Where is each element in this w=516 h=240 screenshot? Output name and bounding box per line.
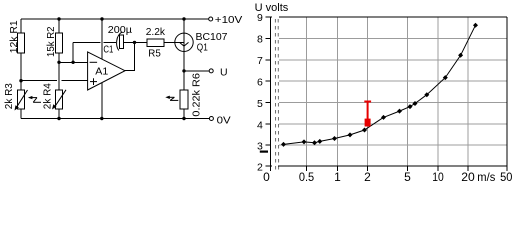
- chart horizontal gridlines: [279, 38, 507, 145]
- resistor R2: [55, 33, 62, 53]
- node rail-R4 junction: [57, 117, 60, 120]
- svg-text:C1: C1: [103, 43, 113, 55]
- svg-text:R5: R5: [148, 48, 161, 60]
- wire node U to R6: [183, 71, 185, 90]
- chart data point markers: [281, 23, 478, 147]
- node feedback tap: [71, 61, 74, 64]
- wire R6 to bottom rail: [183, 109, 185, 118]
- svg-text:6: 6: [257, 77, 263, 89]
- node rail-R2 junction: [57, 17, 60, 20]
- resistor R1: [18, 33, 25, 53]
- wire R3 to bottom rail: [20, 109, 22, 119]
- node rail-Q1 collector junction: [182, 17, 185, 20]
- resistor R5 2.2k: [135, 41, 147, 43]
- R4 adjust diagonal arrow: [54, 90, 66, 108]
- node rail-R6 junction: [182, 117, 185, 120]
- svg-text:4: 4: [257, 119, 263, 131]
- svg-text:Q1: Q1: [197, 42, 208, 54]
- svg-text:5: 5: [404, 170, 411, 184]
- op-amp A1: [88, 52, 125, 90]
- chart y labels: [257, 12, 263, 173]
- terminal +10V: [209, 17, 213, 21]
- wire node U to terminal: [184, 70, 209, 72]
- terminal U: [209, 69, 213, 73]
- svg-text:7: 7: [257, 55, 263, 67]
- chart data curve: [284, 25, 476, 144]
- wire feedback to C1 (gap at V+ crossing): [73, 41, 100, 43]
- svg-text:2.2k: 2.2k: [146, 26, 166, 38]
- svg-text:10: 10: [432, 170, 444, 184]
- wire Q1 collector: [183, 19, 185, 33]
- wire node A to R3: [20, 81, 22, 91]
- svg-text:1: 1: [334, 170, 341, 184]
- wire bottom 0V rail: [21, 118, 209, 120]
- R3 adjust diagonal arrow: [16, 90, 27, 108]
- svg-text:0.5: 0.5: [299, 170, 315, 184]
- svg-text:0.22k R6: 0.22k R6: [192, 73, 203, 117]
- wire op-amp output: [125, 42, 135, 70]
- svg-text:2: 2: [364, 170, 371, 184]
- wire R1 branch upper: [20, 19, 22, 33]
- svg-text:+10V: +10V: [215, 14, 243, 26]
- svg-text:5: 5: [257, 98, 263, 110]
- svg-text:15k R2: 15k R2: [46, 26, 57, 57]
- chart scale-break dashed lines: [274, 19, 276, 171]
- svg-text:20: 20: [461, 170, 475, 184]
- svg-text:0V: 0V: [217, 115, 231, 127]
- wire top +10V rail: [21, 18, 209, 20]
- wire R1 to node A: [20, 53, 22, 81]
- node rail-opamp V+ junction: [100, 17, 103, 20]
- svg-text:2k R3: 2k R3: [4, 83, 15, 109]
- wire R4 to bottom rail: [58, 109, 60, 119]
- node B bridge right output: [57, 61, 60, 64]
- chart x ticks: [307, 166, 469, 171]
- resistor R4: [55, 90, 62, 109]
- resistor R6 0.22k sensor: [180, 90, 188, 109]
- svg-text:m/s: m/s: [477, 170, 495, 184]
- svg-text:2k R4: 2k R4: [42, 83, 53, 109]
- svg-text:12k R1: 12k R1: [9, 20, 20, 53]
- capacitor C1 200µ: [117, 32, 123, 51]
- wire node B to op-amp inverting input: [59, 61, 88, 63]
- svg-text:9: 9: [257, 12, 263, 24]
- wire op-amp V+ supply: [101, 19, 103, 59]
- node rail-opamp V- junction: [100, 117, 103, 120]
- wire R2 branch upper: [58, 19, 60, 33]
- node U output: [182, 69, 185, 72]
- terminal 0V: [209, 117, 213, 121]
- svg-text:U: U: [220, 67, 228, 79]
- svg-text:3: 3: [257, 140, 263, 152]
- svg-text:2: 2: [257, 162, 263, 174]
- wire feedback up: [72, 42, 74, 62]
- svg-text:8: 8: [257, 34, 263, 46]
- chart calibration bold tick 2.7V: [260, 151, 268, 153]
- node A bridge left output: [19, 79, 22, 82]
- chart vertical gridlines: [307, 17, 469, 166]
- chart y ticks: [266, 17, 271, 166]
- wire op-amp V- to 0V rail: [101, 83, 103, 119]
- svg-text:A1: A1: [95, 66, 108, 78]
- wire R2 to R4: [58, 53, 60, 90]
- chart frame: [271, 17, 508, 172]
- wire node A to op-amp non-inverting input (gap at R4 branch crossing): [21, 80, 57, 82]
- chart x labels: [263, 170, 513, 184]
- resistor R3 (preset): [18, 90, 25, 109]
- R3 preset z-arrow symbol: [28, 96, 33, 99]
- svg-text:0: 0: [263, 170, 270, 184]
- wire Q1 emitter to node U: [183, 52, 185, 71]
- node output-C1-R5 junction: [133, 41, 136, 44]
- svg-text:50: 50: [500, 170, 513, 184]
- chart red error bar at 2 m/s: [364, 102, 371, 127]
- transistor Q1 BC107: [175, 33, 193, 51]
- R6 sensor z-arrow symbol: [165, 96, 170, 99]
- svg-text:200µ: 200µ: [108, 24, 132, 36]
